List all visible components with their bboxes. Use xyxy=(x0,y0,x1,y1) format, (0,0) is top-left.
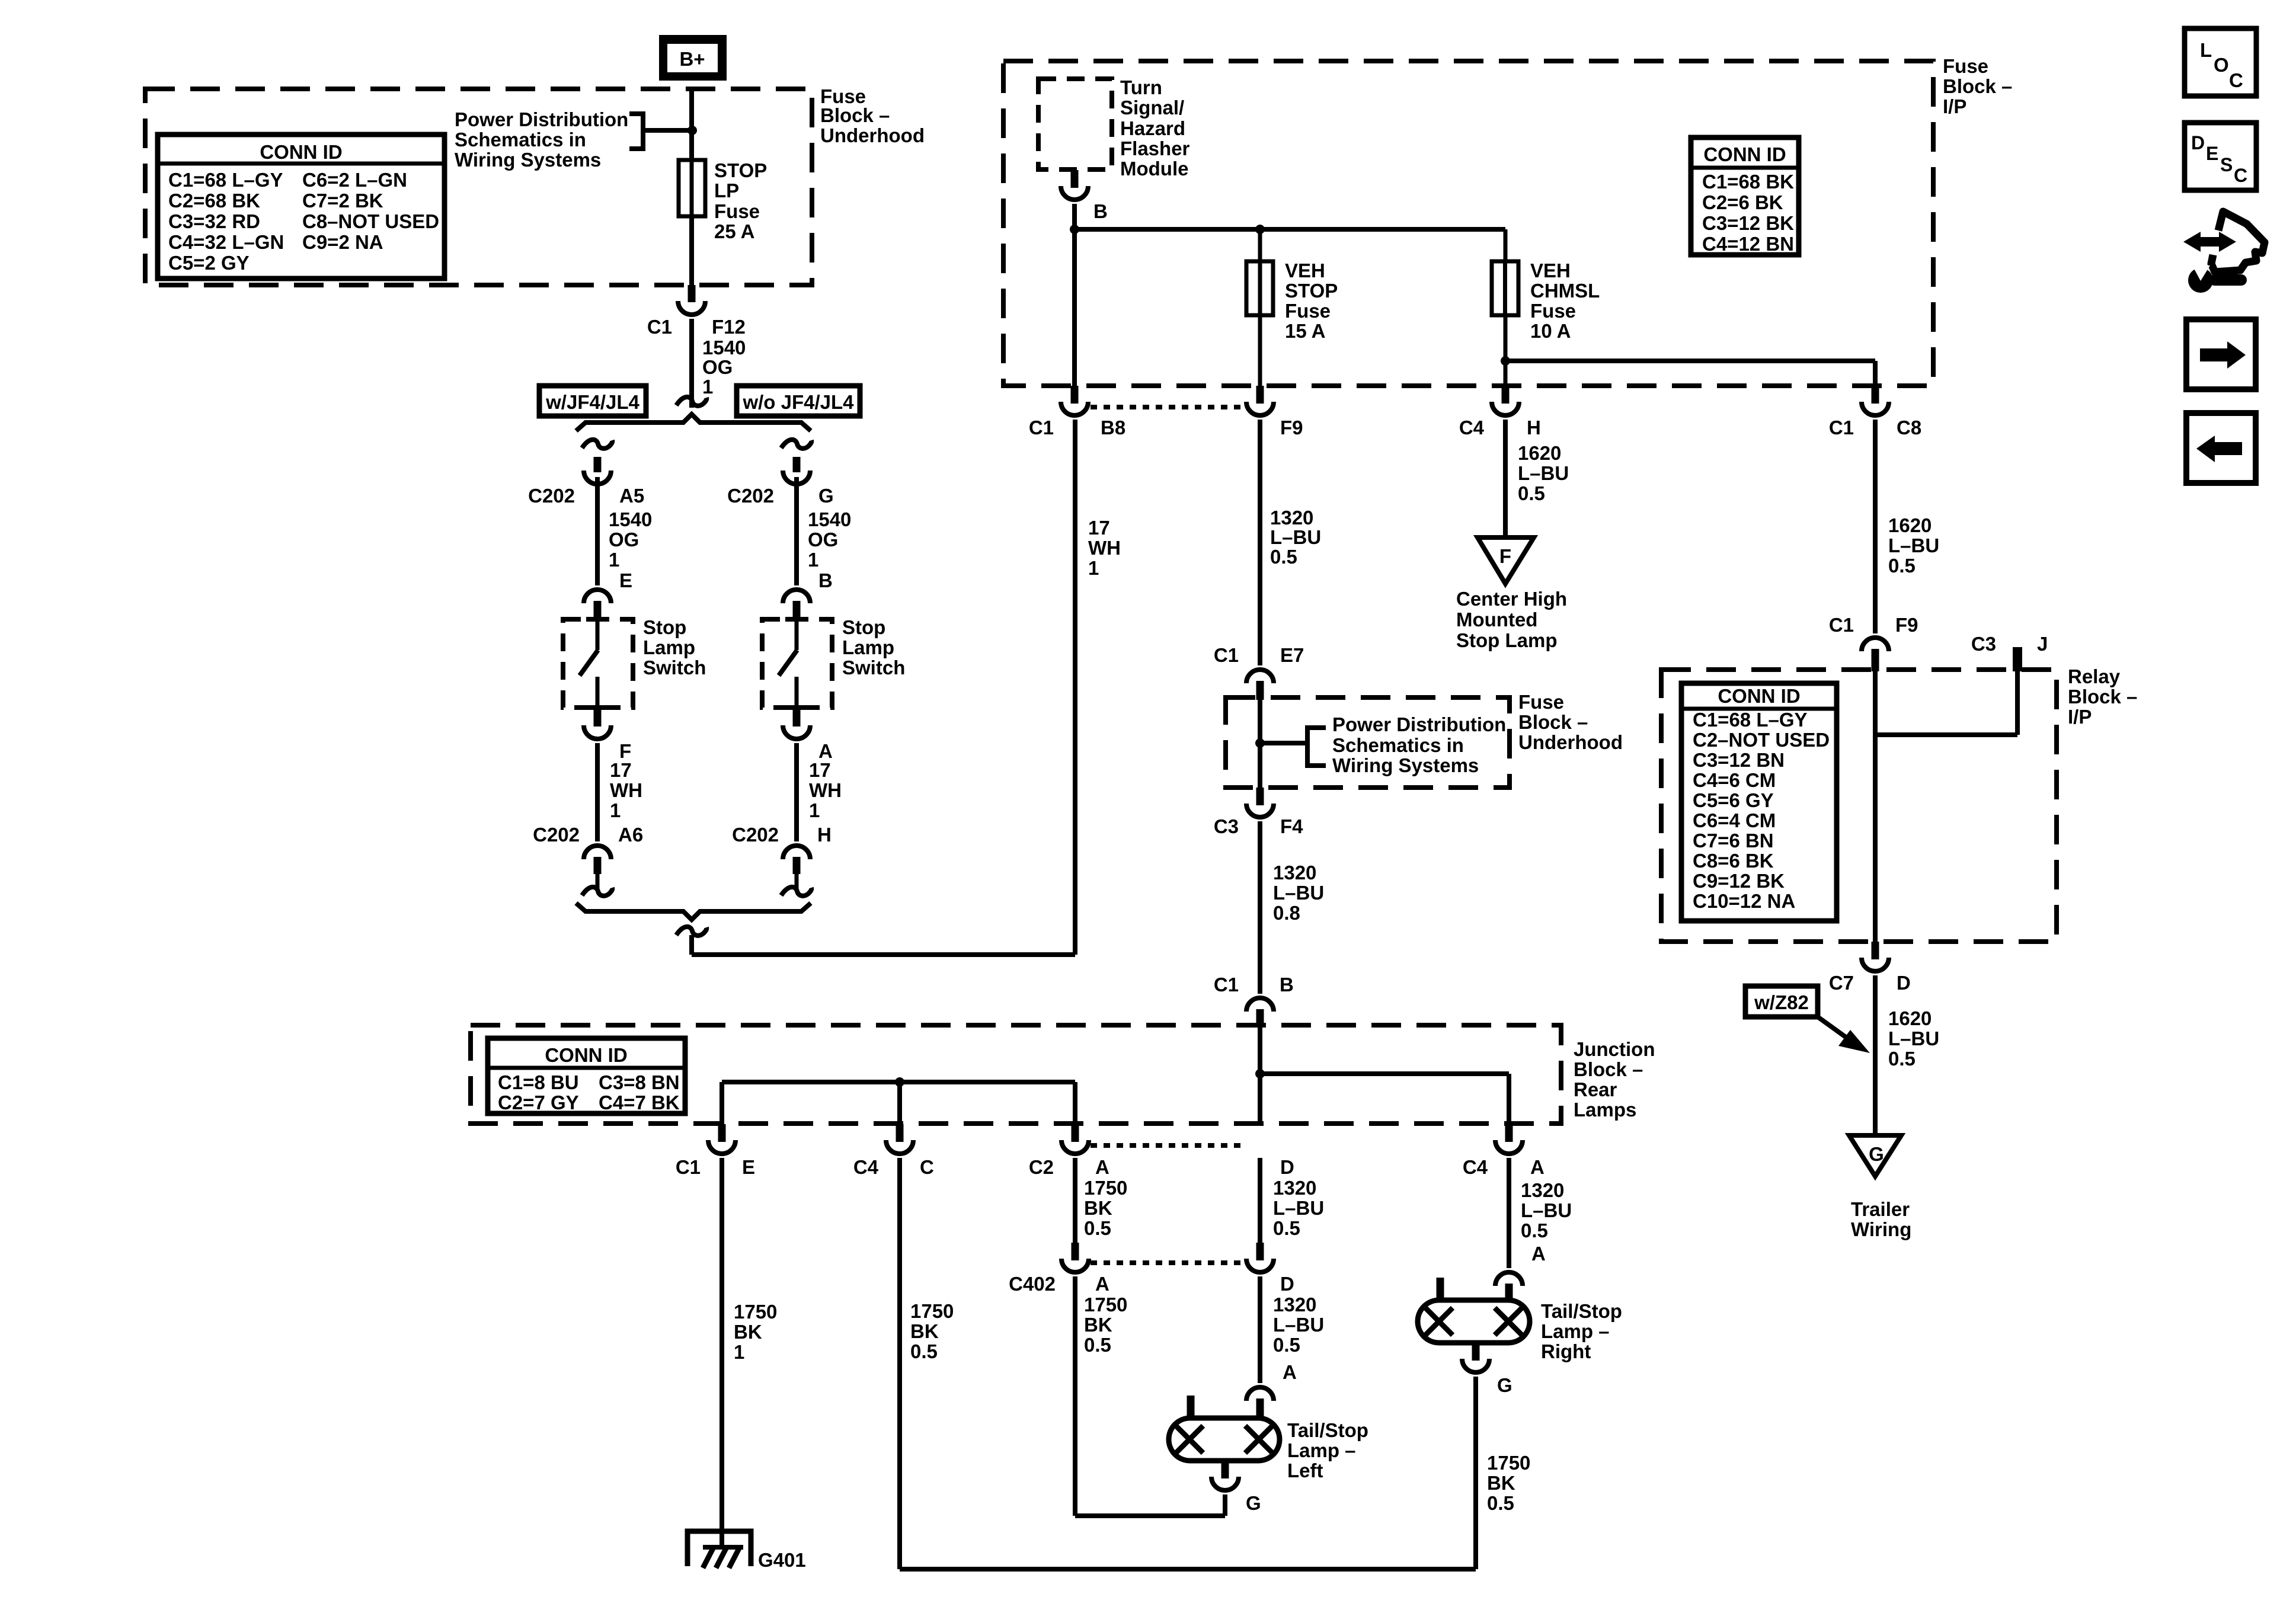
svg-text:C5=6 GY: C5=6 GY xyxy=(1693,789,1774,811)
svg-text:Flasher: Flasher xyxy=(1120,137,1190,159)
wire through relay block xyxy=(1873,671,1878,942)
svg-text:C6=4 CM: C6=4 CM xyxy=(1693,809,1776,831)
switch top contact bar right xyxy=(785,617,808,622)
connector C4 pin A junction xyxy=(1495,1140,1523,1154)
svg-text:Tail/Stop: Tail/Stop xyxy=(1541,1300,1622,1322)
svg-text:C2–NOT USED: C2–NOT USED xyxy=(1693,729,1830,751)
svg-text:C7: C7 xyxy=(1829,972,1854,994)
svg-text:Switch: Switch xyxy=(842,657,905,679)
connector C1 pin B junction block xyxy=(1246,998,1274,1012)
svg-text:C3: C3 xyxy=(1971,633,1996,655)
CONN ID relay header line xyxy=(1681,707,1837,711)
svg-text:15 A: 15 A xyxy=(1285,320,1325,342)
svg-text:1320: 1320 xyxy=(1270,507,1313,529)
stub C7-D xyxy=(1872,942,1879,959)
connector link B8-F9 dotted xyxy=(1091,405,1245,409)
wire C4-A down xyxy=(1507,1158,1511,1268)
svg-text:1: 1 xyxy=(702,376,713,398)
svg-text:1: 1 xyxy=(808,549,818,571)
svg-text:L–BU: L–BU xyxy=(1521,1199,1572,1221)
ground link to left lamp xyxy=(1075,1513,1225,1518)
svg-text:Block –: Block – xyxy=(1943,75,2012,97)
svg-text:Block –: Block – xyxy=(820,104,890,126)
stub C402-A xyxy=(1072,1243,1079,1260)
svg-text:Lamp –: Lamp – xyxy=(1541,1320,1610,1342)
svg-text:1620: 1620 xyxy=(1888,514,1932,536)
svg-text:Left: Left xyxy=(1287,1460,1323,1481)
wire C402-A down xyxy=(1073,1276,1077,1516)
lamp left X2 xyxy=(1245,1426,1272,1453)
svg-text:WH: WH xyxy=(809,779,842,801)
svg-text:B: B xyxy=(1280,974,1294,996)
connector C202 pin G right xyxy=(783,471,810,484)
switch bottom contact bar right xyxy=(785,705,808,710)
junction dot xyxy=(1255,1069,1265,1078)
svg-text:E7: E7 xyxy=(1280,644,1304,666)
svg-text:O: O xyxy=(2214,54,2229,76)
svg-text:Fuse: Fuse xyxy=(1530,300,1576,322)
fuse block underhood dashed box xyxy=(145,89,812,285)
wire J down xyxy=(2015,671,2020,735)
svg-text:L–BU: L–BU xyxy=(1273,882,1324,904)
svg-text:A: A xyxy=(1283,1361,1297,1383)
svg-text:C3: C3 xyxy=(1214,815,1239,837)
svg-text:C1=68 L–GY: C1=68 L–GY xyxy=(168,169,283,191)
svg-text:WH: WH xyxy=(610,779,642,801)
svg-text:Hazard: Hazard xyxy=(1120,117,1185,139)
left lamp ground pin xyxy=(1221,1461,1229,1478)
svg-text:G: G xyxy=(818,485,834,507)
svg-text:1320: 1320 xyxy=(1273,862,1316,884)
connector C202 stub right xyxy=(793,457,801,472)
svg-text:C4: C4 xyxy=(1459,417,1485,439)
svg-text:STOP: STOP xyxy=(714,159,767,181)
stub C3-F4 xyxy=(1256,788,1264,805)
wire C down xyxy=(897,1158,902,1569)
wire through power distribution box xyxy=(1258,700,1262,788)
wire 17 WH down to merge xyxy=(1073,420,1077,955)
svg-text:G: G xyxy=(1246,1492,1261,1514)
connector C1 pin E7 xyxy=(1246,670,1274,683)
turn signal hazard flasher module box xyxy=(1038,79,1112,169)
svg-text:J: J xyxy=(2037,633,2048,655)
svg-text:C8: C8 xyxy=(1897,417,1921,439)
connector C2 pin A junction xyxy=(1061,1140,1089,1154)
svg-text:STOP: STOP xyxy=(1285,280,1338,302)
svg-text:Relay: Relay xyxy=(2068,665,2121,687)
shortcut icon wrench xyxy=(2188,268,2213,293)
svg-text:C4=32 L–GN: C4=32 L–GN xyxy=(168,231,284,253)
svg-text:Lamp: Lamp xyxy=(842,636,894,658)
bus B+ feed inside fuse block xyxy=(1075,227,1505,232)
switch top contact bar left xyxy=(586,617,609,622)
connector C7 pin D xyxy=(1862,958,1889,971)
stub F9 relay xyxy=(1872,649,1879,671)
svg-text:0.5: 0.5 xyxy=(1273,1217,1300,1239)
svg-text:C402: C402 xyxy=(1009,1273,1056,1295)
svg-text:0.5: 0.5 xyxy=(1273,1334,1300,1356)
svg-text:C1=8 BU: C1=8 BU xyxy=(498,1071,579,1093)
svg-text:1750: 1750 xyxy=(1487,1452,1530,1474)
connector C1 pin F9 relay xyxy=(1862,638,1889,651)
svg-text:C1: C1 xyxy=(1829,614,1854,636)
connector C1 pin F12 xyxy=(678,301,705,315)
svg-text:1: 1 xyxy=(809,799,820,821)
svg-text:1: 1 xyxy=(609,549,619,571)
branch down to C8 xyxy=(1873,361,1878,386)
right arrow xyxy=(2200,348,2228,361)
svg-text:C1: C1 xyxy=(1829,417,1854,439)
svg-text:Mounted: Mounted xyxy=(1456,609,1537,631)
left arrow xyxy=(2214,442,2242,455)
stub into right lamp xyxy=(1505,1284,1513,1300)
F triangle (CHMSL) xyxy=(1478,537,1534,584)
wire J to main xyxy=(1875,732,2017,737)
svg-text:1540: 1540 xyxy=(808,508,851,530)
junction block ground bus xyxy=(722,1080,1075,1084)
icon box LOC xyxy=(2185,28,2256,96)
svg-text:Stop Lamp: Stop Lamp xyxy=(1456,629,1558,651)
fuse STOP LP 25A xyxy=(679,160,705,216)
svg-text:G: G xyxy=(1497,1374,1512,1396)
connector C1-F12 stub xyxy=(688,285,696,302)
wire to bracket xyxy=(1260,741,1306,745)
connector C202 pin A6 left xyxy=(584,846,611,859)
svg-text:A: A xyxy=(1095,1156,1109,1178)
wire F9 to E7 xyxy=(1258,420,1262,665)
svg-text:L–BU: L–BU xyxy=(1273,1197,1324,1219)
power distribution dashed box xyxy=(1226,697,1510,788)
svg-text:C2=7 GY: C2=7 GY xyxy=(498,1092,579,1113)
connector pin A left lamp xyxy=(1246,1387,1274,1401)
wire flasher B down xyxy=(1072,204,1077,386)
svg-text:C1=68 BK: C1=68 BK xyxy=(1702,171,1794,193)
svg-text:0.8: 0.8 xyxy=(1273,902,1300,924)
svg-text:1320: 1320 xyxy=(1273,1177,1316,1199)
svg-text:Block –: Block – xyxy=(1574,1058,1643,1080)
curl bottom right branch xyxy=(781,887,811,896)
wire through VEH STOP fuse xyxy=(1258,229,1262,386)
svg-text:1620: 1620 xyxy=(1518,442,1561,464)
svg-text:w/o JF4/JL4: w/o JF4/JL4 xyxy=(742,391,854,413)
svg-text:C3=12 BN: C3=12 BN xyxy=(1693,749,1785,771)
connector pin G right lamp xyxy=(1462,1359,1489,1372)
wire C1-F12 to split xyxy=(689,319,694,408)
CONN ID table relay xyxy=(1681,683,1837,921)
svg-text:0.5: 0.5 xyxy=(1084,1217,1111,1239)
stub C4-A junction xyxy=(1505,1124,1513,1142)
stub C1-E junction xyxy=(718,1124,726,1142)
svg-text:D: D xyxy=(1280,1156,1294,1178)
wire B+ down xyxy=(689,90,694,160)
svg-text:Fuse: Fuse xyxy=(1285,300,1331,322)
wire bracket to B+ feed xyxy=(643,128,692,133)
svg-text:C2=6 BK: C2=6 BK xyxy=(1702,191,1783,213)
svg-text:Signal/: Signal/ xyxy=(1120,97,1184,119)
svg-text:C4=12 BN: C4=12 BN xyxy=(1702,233,1794,255)
wire end left xyxy=(596,874,600,889)
svg-text:C1=68 L–GY: C1=68 L–GY xyxy=(1693,709,1808,731)
svg-text:Wiring Systems: Wiring Systems xyxy=(1332,754,1479,776)
svg-text:OG: OG xyxy=(702,356,733,378)
icon box DESC xyxy=(2185,123,2256,190)
connector C402 pin A xyxy=(1061,1259,1089,1272)
connector C4 pin H xyxy=(1492,402,1519,415)
svg-text:Stop: Stop xyxy=(842,616,885,638)
svg-text:VEH: VEH xyxy=(1285,260,1325,281)
tail/stop lamp right xyxy=(1418,1300,1530,1343)
svg-text:10 A: 10 A xyxy=(1530,320,1571,342)
wire end curl xyxy=(676,397,706,406)
svg-text:C7=2 BK: C7=2 BK xyxy=(302,190,383,212)
svg-text:S: S xyxy=(2220,154,2233,175)
connector C1 pin E junction xyxy=(708,1140,736,1154)
svg-text:Wiring Systems: Wiring Systems xyxy=(455,149,601,171)
svg-text:I/P: I/P xyxy=(2068,706,2092,728)
stub out of switch left xyxy=(594,710,602,727)
svg-text:0.5: 0.5 xyxy=(1270,546,1297,568)
svg-text:BK: BK xyxy=(910,1320,939,1342)
curl top left branch xyxy=(582,440,612,449)
svg-text:D: D xyxy=(2191,132,2205,153)
svg-text:Wiring: Wiring xyxy=(1851,1218,1911,1240)
svg-text:BK: BK xyxy=(1487,1472,1515,1494)
svg-text:C1: C1 xyxy=(1029,417,1054,439)
svg-text:F9: F9 xyxy=(1895,614,1918,636)
svg-text:C202: C202 xyxy=(528,485,575,507)
svg-text:0.5: 0.5 xyxy=(1888,1048,1916,1070)
wire D down xyxy=(1258,1158,1262,1243)
CONN ID table junction xyxy=(488,1038,685,1113)
stub below C202 right xyxy=(793,857,801,874)
svg-text:C10=12 NA: C10=12 NA xyxy=(1693,890,1795,912)
CONN ID table underhood xyxy=(158,135,445,279)
fuse VEH CHMSL 10A xyxy=(1492,261,1518,315)
svg-text:E: E xyxy=(619,569,632,591)
shortcut icon map outline xyxy=(2211,212,2265,272)
left lamp G wire xyxy=(1223,1494,1227,1516)
svg-text:1: 1 xyxy=(734,1341,744,1363)
lamp right X2 xyxy=(1495,1308,1522,1335)
svg-text:CONN ID: CONN ID xyxy=(1718,685,1800,707)
connector pin B flasher xyxy=(1061,186,1088,200)
icon box arrow left xyxy=(2186,413,2256,483)
svg-text:E: E xyxy=(2206,143,2218,164)
svg-text:A: A xyxy=(1531,1243,1546,1265)
terminal J stub xyxy=(2013,647,2022,671)
lamp right X1 xyxy=(1425,1308,1453,1335)
stop lamp switch box right xyxy=(762,619,832,708)
stub E7 xyxy=(1256,681,1264,700)
wire to left lamp A xyxy=(1258,1276,1262,1383)
svg-text:C3=32 RD: C3=32 RD xyxy=(168,210,260,232)
svg-text:G: G xyxy=(1869,1143,1884,1165)
connector C1 pin B8 xyxy=(1061,402,1088,415)
svg-text:E: E xyxy=(742,1156,755,1178)
svg-text:OG: OG xyxy=(609,529,639,551)
svg-text:C1: C1 xyxy=(1214,644,1239,666)
wire fuse to C1 xyxy=(689,216,694,285)
svg-text:Block –: Block – xyxy=(1518,711,1588,733)
svg-text:Underhood: Underhood xyxy=(820,124,925,146)
svg-text:C4: C4 xyxy=(1463,1156,1488,1178)
junction block rear lamps dashed box xyxy=(471,1025,1561,1124)
CONN ID junction header line xyxy=(488,1066,685,1070)
svg-text:C3=8 BN: C3=8 BN xyxy=(599,1071,680,1093)
svg-text:H: H xyxy=(1527,417,1541,439)
svg-text:C7=6 BN: C7=6 BN xyxy=(1693,830,1774,852)
wire to switch left xyxy=(595,477,600,585)
svg-text:C4=6 CM: C4=6 CM xyxy=(1693,769,1776,791)
svg-text:D: D xyxy=(1280,1273,1294,1295)
option box w/JF4/JL4 xyxy=(539,386,646,416)
right lamp G wire xyxy=(1473,1377,1478,1569)
svg-text:1: 1 xyxy=(1088,557,1099,579)
arrow w/Z82 xyxy=(1818,1017,1854,1043)
connector C202 stub left xyxy=(594,457,602,472)
junction block feed bus xyxy=(1260,1071,1509,1076)
junction dot xyxy=(1070,225,1079,234)
svg-text:C202: C202 xyxy=(533,824,580,846)
svg-text:1750: 1750 xyxy=(910,1300,954,1322)
svg-text:C9=12 BK: C9=12 BK xyxy=(1693,870,1785,892)
svg-text:WH: WH xyxy=(1088,537,1121,559)
svg-text:D: D xyxy=(1897,972,1911,994)
svg-text:Right: Right xyxy=(1541,1340,1591,1362)
svg-text:BK: BK xyxy=(734,1321,762,1343)
svg-text:1750: 1750 xyxy=(1084,1177,1127,1199)
svg-text:Rear: Rear xyxy=(1574,1078,1617,1100)
svg-text:C4: C4 xyxy=(853,1156,879,1178)
wire C2-A down xyxy=(1073,1158,1077,1243)
connector C4 pin C junction xyxy=(886,1140,913,1154)
junction dot xyxy=(687,126,697,135)
G triangle (trailer) xyxy=(1849,1135,1901,1176)
stub C4-H xyxy=(1502,386,1510,404)
stub C2-A junction xyxy=(1072,1124,1079,1142)
svg-text:C: C xyxy=(2234,165,2247,186)
svg-text:C: C xyxy=(920,1156,934,1178)
svg-text:F: F xyxy=(1499,545,1511,567)
svg-text:B+: B+ xyxy=(679,48,705,70)
stub out of switch right xyxy=(793,710,801,727)
option box w/Z82 xyxy=(1745,986,1818,1017)
svg-text:C1: C1 xyxy=(647,316,672,338)
curl bottom left branch xyxy=(582,887,612,896)
wire E to G401 xyxy=(720,1158,724,1534)
option box w/o JF4/JL4 xyxy=(737,386,860,416)
svg-text:I/P: I/P xyxy=(1943,95,1966,117)
connector pin G left lamp xyxy=(1211,1477,1239,1490)
wire to CHMSL triangle xyxy=(1503,420,1508,537)
svg-text:C9=2 NA: C9=2 NA xyxy=(302,231,383,253)
CONN ID table header line xyxy=(158,162,445,166)
svg-text:17: 17 xyxy=(1088,517,1110,539)
svg-text:Fuse: Fuse xyxy=(714,200,760,222)
switch lower contact wire right xyxy=(795,677,799,708)
svg-text:25 A: 25 A xyxy=(714,220,754,242)
svg-text:L–BU: L–BU xyxy=(1270,526,1321,548)
svg-text:0.5: 0.5 xyxy=(1888,555,1916,577)
wire F4 to junction block xyxy=(1258,821,1262,994)
svg-text:Fuse: Fuse xyxy=(1943,55,1988,77)
split brace xyxy=(576,414,811,431)
junction dot xyxy=(1255,738,1265,748)
merge brace xyxy=(576,903,811,920)
lamp left X1 xyxy=(1176,1426,1203,1453)
reference bracket xyxy=(629,114,643,149)
fuse block I/P dashed box xyxy=(1003,61,1933,386)
wire to C202 lower left xyxy=(595,743,600,841)
curl top right branch xyxy=(781,440,811,449)
wire end right xyxy=(795,874,799,889)
svg-text:G401: G401 xyxy=(758,1549,806,1571)
ground hatch bar xyxy=(703,1545,743,1550)
svg-text:CONN ID: CONN ID xyxy=(1703,143,1786,165)
fuse VEH STOP 15A xyxy=(1246,261,1273,315)
left lamp spare pin xyxy=(1187,1396,1195,1418)
B+ terminal xyxy=(659,35,727,81)
svg-text:C: C xyxy=(2229,69,2243,91)
svg-text:Lamp –: Lamp – xyxy=(1287,1439,1356,1461)
svg-text:Lamp: Lamp xyxy=(643,636,695,658)
svg-text:C2=68 BK: C2=68 BK xyxy=(168,190,260,212)
tail/stop lamp left xyxy=(1169,1418,1280,1461)
ground hatches xyxy=(703,1547,740,1568)
svg-text:Turn: Turn xyxy=(1120,76,1162,98)
switch blade right xyxy=(779,650,797,676)
svg-text:Junction: Junction xyxy=(1574,1038,1655,1060)
stub below C202 left xyxy=(594,857,602,874)
curl below merge xyxy=(676,927,706,936)
svg-text:C3=12 BK: C3=12 BK xyxy=(1702,212,1794,234)
CONN ID I/P header line xyxy=(1691,166,1799,170)
svg-text:VEH: VEH xyxy=(1530,260,1571,281)
svg-text:0.5: 0.5 xyxy=(1487,1492,1514,1514)
svg-text:CONN ID: CONN ID xyxy=(260,141,342,163)
connector C1 pin F9 xyxy=(1246,402,1274,415)
svg-text:A: A xyxy=(1095,1273,1109,1295)
svg-text:A: A xyxy=(1530,1156,1544,1178)
stub B junction block xyxy=(1256,1009,1264,1028)
svg-text:1540: 1540 xyxy=(609,508,652,530)
svg-text:A6: A6 xyxy=(618,824,643,846)
svg-text:0.5: 0.5 xyxy=(1521,1220,1548,1241)
connector C402 pin D xyxy=(1246,1259,1274,1272)
svg-text:Center High: Center High xyxy=(1456,588,1567,610)
svg-text:0.5: 0.5 xyxy=(1518,482,1545,504)
connector C202 pin H right xyxy=(783,846,810,859)
svg-text:C8=6 BK: C8=6 BK xyxy=(1693,850,1774,872)
right lamp spare pin xyxy=(1437,1278,1444,1300)
shortcut icon double arrow xyxy=(2183,232,2236,252)
svg-text:BK: BK xyxy=(1084,1197,1112,1219)
ground bus drop C xyxy=(897,1082,902,1124)
svg-text:0.5: 0.5 xyxy=(1084,1334,1111,1356)
ground link to right lamp xyxy=(900,1567,1476,1572)
svg-text:L–BU: L–BU xyxy=(1888,1028,1939,1049)
wire merge to 17WH run xyxy=(692,952,1075,957)
svg-text:17: 17 xyxy=(610,759,632,781)
svg-text:w/Z82: w/Z82 xyxy=(1754,991,1809,1013)
svg-text:F4: F4 xyxy=(1280,815,1303,837)
svg-text:BK: BK xyxy=(1084,1314,1112,1336)
right lamp ground pin xyxy=(1472,1343,1480,1361)
connector pin A right xyxy=(783,725,810,739)
svg-text:L–BU: L–BU xyxy=(1518,462,1569,484)
svg-text:1750: 1750 xyxy=(734,1301,777,1323)
reference bracket 2 xyxy=(1307,728,1326,766)
